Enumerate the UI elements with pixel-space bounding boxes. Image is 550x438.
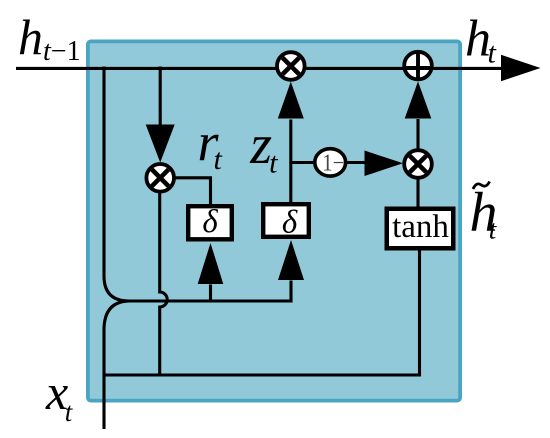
svg-text:tanh: tanh bbox=[392, 209, 449, 245]
svg-text:xt: xt bbox=[45, 364, 74, 427]
svg-text:1−: 1− bbox=[322, 150, 344, 176]
svg-text:ht: ht bbox=[465, 11, 497, 70]
svg-text:δ: δ bbox=[202, 204, 218, 240]
svg-text:δ: δ bbox=[282, 205, 298, 241]
svg-text:ht−1: ht−1 bbox=[18, 9, 81, 67]
